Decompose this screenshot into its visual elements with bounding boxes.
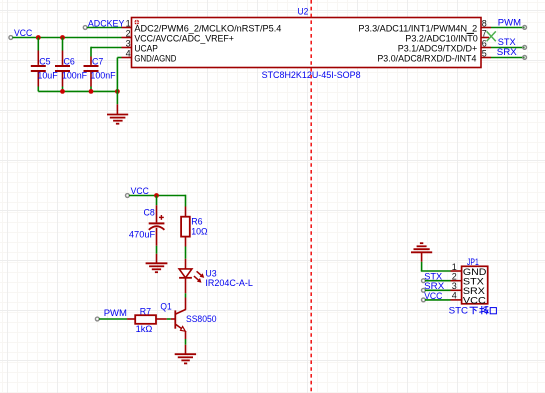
JP1 pin number 1 [452, 262, 457, 272]
ground (left block) [107, 104, 128, 123]
net label PWM (right) [498, 17, 521, 28]
svg-text:10uF: 10uF [37, 70, 57, 81]
net port dot STX (right) [523, 46, 527, 50]
svg-text:3: 3 [452, 281, 457, 291]
svg-text:100nF: 100nF [62, 70, 87, 81]
U2 pin number 3 [126, 38, 131, 48]
CJK glyph zai [479, 306, 488, 314]
wire VCC to C8 [156, 196, 158, 206]
U2 designator label [298, 6, 309, 17]
U2 pin-1 marker [134, 19, 140, 25]
connector JP1 box [462, 266, 488, 304]
svg-text:VCC: VCC [424, 291, 442, 302]
JP1 pin number 2 [452, 272, 457, 282]
wire R7 to Q1 base [167, 318, 176, 320]
svg-text:4: 4 [126, 48, 131, 58]
U2 pin number 8 [482, 18, 487, 28]
net label VCC (middle) [131, 186, 149, 197]
net port dot PWM (left) [95, 317, 99, 321]
U2 pin 8 name P3.3/ADC11/INT1/PWM4N_2 [358, 24, 477, 35]
U2 pin 5 stub [481, 57, 491, 59]
JP1 designator [467, 257, 479, 268]
wire VCC rail to pin 2 [12, 37, 121, 39]
JP1 pin 3 stub [451, 289, 462, 291]
JP1 pin 3 name SRX [463, 286, 486, 297]
net port dot PWM (right) [523, 26, 527, 30]
svg-text:Q1: Q1 [160, 301, 171, 312]
svg-text:1: 1 [452, 262, 457, 272]
svg-text:STC: STC [449, 306, 469, 317]
JP1 pin 4 name VCC [463, 296, 486, 307]
U2 pin number 2 [126, 28, 131, 38]
no-connect X on pin 7 [487, 31, 496, 41]
svg-text:10Ω: 10Ω [191, 226, 207, 237]
resistor R7 [127, 315, 167, 324]
ground (under C8) [146, 254, 168, 272]
resistor R6 [181, 207, 190, 247]
capacitor C7 [84, 57, 99, 92]
svg-text:C5: C5 [39, 57, 50, 68]
R6 designator [191, 216, 202, 227]
net port dot VCC (top left) [9, 36, 13, 40]
U2 pin 8 stub [481, 27, 491, 29]
net label PWM (left) [104, 308, 127, 319]
U2 pin 2 stub [122, 37, 132, 39]
junction at C6/VCC rail [60, 35, 65, 40]
wire PWM from pin 8 [491, 27, 525, 29]
sheet divider dashed line [310, 0, 312, 393]
U2 pin 4 stub [122, 57, 132, 59]
wire VCC middle rail [129, 195, 186, 207]
net label SRX (JP1) [424, 281, 445, 292]
wire ground to JP1 pin 1 [421, 262, 451, 271]
JP1 pin 2 name STX [463, 276, 485, 287]
R6 value 10ohm [191, 226, 207, 237]
svg-text:PWM: PWM [104, 308, 127, 319]
wire pin 4 to rail [117, 58, 121, 92]
wire VCC to JP1 pin 4 [425, 299, 451, 301]
U2 pin 7 stub [481, 37, 489, 39]
CJK glyph kou [490, 308, 496, 314]
U2 pin 6 name P3.1/ADC9/TXD/D+ [398, 44, 478, 55]
U2 pin number 6 [482, 38, 487, 48]
U3 designator [205, 269, 216, 280]
U3 value IR204C-A-L [205, 278, 253, 289]
svg-text:2: 2 [126, 28, 131, 38]
svg-text:6: 6 [482, 38, 487, 48]
svg-text:4: 4 [452, 291, 457, 301]
JP1 pin 4 stub [451, 299, 462, 301]
net port dot STX (left of JP1) [422, 279, 426, 283]
svg-text:5: 5 [482, 48, 487, 58]
wire pin3 to C7 [91, 47, 122, 57]
JP1 pin number 3 [452, 281, 457, 291]
net label SRX (right) [497, 47, 518, 58]
C6 designator [64, 57, 75, 68]
U2 pin 2 name VCC/AVCC/ADC_VREF+ [134, 34, 234, 45]
net port dot VCC (middle) [126, 194, 130, 198]
svg-text:C8: C8 [144, 208, 155, 219]
wire SRX to JP1 pin 3 [425, 289, 451, 291]
svg-text:3: 3 [126, 38, 131, 48]
JP1 pin 1 stub [451, 270, 462, 272]
svg-text:GND/AGND: GND/AGND [134, 54, 176, 65]
svg-text:1: 1 [126, 18, 131, 28]
svg-text:ADCKEY: ADCKEY [88, 19, 125, 30]
capacitor C5 [31, 38, 46, 92]
C5 designator [39, 57, 50, 68]
U2 pin 3 name UCAP [134, 44, 158, 55]
wire SRX from pin 5 [491, 57, 525, 59]
U2 pin number 1 [126, 18, 131, 28]
svg-text:SS8050: SS8050 [186, 314, 217, 325]
R7 designator [140, 306, 151, 317]
wire STX to JP1 pin 2 [425, 280, 451, 282]
svg-text:P3.0/ADC8/RXD/D-/INT4: P3.0/ADC8/RXD/D-/INT4 [377, 54, 476, 65]
net label VCC (top left) [14, 28, 32, 39]
C7 value 100nF [90, 70, 115, 81]
U2 pin 6 stub [481, 47, 491, 49]
net label STX (right) [498, 37, 517, 48]
U2 pin 5 name P3.0/ADC8/RXD/D-/INT4 [377, 54, 476, 65]
U2 pin number 7 [482, 28, 487, 38]
U2 pin 3 stub [122, 47, 132, 49]
wire C8 to ground [156, 246, 158, 254]
U2 value label STC8H2K12U-45I-SOP8 [262, 70, 361, 81]
C7 designator [92, 57, 103, 68]
CJK glyph xia [470, 307, 478, 314]
Q1 value SS8050 [186, 314, 217, 325]
net label STX (JP1) [424, 272, 443, 283]
net port dot VCC (left of JP1) [422, 298, 426, 302]
ground (under Q1) [175, 345, 196, 364]
JP1 pin 1 name GND [463, 267, 487, 278]
capacitor C6 [55, 38, 70, 92]
op-amp U2 body (MCU STC8H2K12U-45I-SOP8) [132, 18, 482, 68]
junction C6/rail [60, 89, 65, 94]
svg-text:1kΩ: 1kΩ [136, 324, 153, 335]
ground (inverted, JP1 pin 1) [411, 243, 432, 262]
U2 pin 7 name P3.2/ADC10/INT0 with overline [405, 33, 478, 44]
svg-text:100nF: 100nF [90, 70, 115, 81]
net label ADCKEY [88, 19, 125, 30]
net port dot SRX (right) [523, 56, 527, 60]
wire PWM to R7 [99, 318, 127, 320]
R7 value 1kohm [136, 324, 153, 335]
C8 value 470uF [129, 230, 155, 241]
wire R6 to U3 [185, 247, 187, 259]
svg-text:8: 8 [482, 18, 487, 28]
svg-text:PWM: PWM [498, 17, 521, 28]
JP1 pin number 4 [452, 291, 457, 301]
wire Q1 emitter to ground [185, 339, 187, 345]
wire ADCKEY1 to pin 1 [87, 27, 122, 29]
wire STX from pin 6 [491, 47, 525, 49]
svg-text:C6: C6 [64, 57, 75, 68]
svg-text:2: 2 [452, 272, 457, 282]
wire U3 to Q1 collector [185, 293, 187, 297]
JP1 pin 2 stub [451, 280, 462, 282]
svg-text:R7: R7 [140, 306, 151, 317]
U2 pin 4 name GND/AGND [134, 54, 176, 65]
svg-text:7: 7 [482, 28, 487, 38]
junction pin4 column/rail [115, 89, 120, 94]
ground rail wire (bottom of caps) [38, 90, 117, 92]
svg-text:470uF: 470uF [129, 230, 155, 241]
svg-text:C7: C7 [92, 57, 103, 68]
net label VCC (JP1) [424, 291, 442, 302]
capacitor C8 (polarized) [149, 205, 165, 246]
svg-text:U2: U2 [298, 6, 309, 17]
U2 pin number 5 [482, 48, 487, 58]
U2 pin number 4 [126, 48, 131, 58]
C5 value 10uF [37, 70, 57, 81]
U2 pin 1 stub [122, 27, 132, 29]
net port dot SRX (left of JP1) [422, 288, 426, 292]
C8 designator [144, 208, 155, 219]
transistor Q1 SS8050 [175, 298, 186, 340]
LED U3 IR204C-A-L [179, 259, 204, 294]
Q1 designator [160, 301, 171, 312]
C6 value 100nF [62, 70, 87, 81]
net port dot ADCKEY1 [83, 26, 87, 30]
svg-text:SRX: SRX [497, 47, 518, 58]
svg-text:IR204C-A-L: IR204C-A-L [205, 278, 253, 289]
U2 pin 1 name ADC2/PWM6_2/MCLKO/nRST/P5.4 [134, 24, 281, 35]
wire rail to ground [116, 91, 118, 104]
junction C7/rail [89, 89, 94, 94]
JP1 comment label STC download port [449, 306, 497, 317]
junction C8/VCC rail [154, 193, 159, 198]
junction at C5/VCC rail [36, 35, 41, 40]
